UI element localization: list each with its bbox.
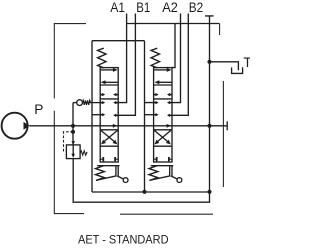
wire T main vertical with plug cap	[205, 16, 214, 192]
spring bottom plate	[151, 165, 174, 167]
wire bottom return line	[92, 191, 210, 193]
spool valve 1	[96, 48, 129, 182]
position A arrows	[101, 69, 115, 71]
wire spool2 T riser	[172, 24, 175, 68]
wire tank bridge spool1	[92, 40, 145, 42]
junction P tap	[71, 124, 75, 128]
position A arrows	[154, 69, 169, 71]
wire spool2 row2 feed	[145, 114, 154, 116]
svg-text:B1: B1	[136, 0, 150, 15]
position C crossed arrows	[154, 130, 171, 142]
wire A2 line	[172, 14, 181, 103]
junction pilot tap	[71, 130, 75, 134]
wire bridge left drop	[91, 41, 93, 192]
junction return mid	[142, 190, 146, 194]
check valve ball spool1	[73, 100, 100, 106]
neutral channel	[154, 98, 172, 100]
neutral blocked port arrows	[154, 93, 172, 117]
pump	[2, 113, 30, 139]
junction T tap	[207, 60, 211, 64]
position C crossed arrows	[101, 130, 118, 142]
bottom blocked ports	[154, 158, 172, 160]
bypass arrow	[113, 124, 118, 128]
spring top	[151, 48, 159, 68]
valve body box	[100, 68, 118, 162]
valve body box	[154, 68, 172, 162]
junction return right	[207, 190, 211, 194]
wire B1 line	[118, 14, 135, 116]
svg-text:B2: B2	[189, 0, 203, 15]
relief valve RV	[64, 132, 88, 159]
wire relief return	[73, 159, 209, 203]
svg-text:T: T	[243, 55, 250, 70]
wire relief feed drop	[72, 103, 74, 145]
wire tank feed	[210, 62, 239, 70]
spring bottom	[96, 166, 105, 181]
spool valve 2	[149, 48, 182, 182]
neutral blocked port arrows	[100, 93, 118, 117]
wire spool1 row2 feed	[92, 114, 100, 116]
svg-text:A2: A2	[162, 0, 178, 15]
boundary envelope (chain line)	[54, 24, 223, 215]
wire B2 line	[172, 14, 188, 116]
svg-text:A1: A1	[110, 0, 125, 15]
spring bottom plate	[97, 165, 119, 167]
tank symbol	[232, 67, 243, 73]
wire carry-over stub	[210, 121, 228, 130]
spring top	[98, 48, 106, 68]
wire bridge right riser / spool2 feed	[145, 41, 154, 192]
bottom blocked ports	[100, 158, 118, 160]
svg-text:P: P	[34, 102, 43, 117]
wire A1 line	[118, 14, 126, 103]
spring bottom	[149, 166, 158, 181]
lever	[96, 166, 123, 181]
svg-text:AET - STANDARD: AET - STANDARD	[78, 232, 169, 246]
junction bypass end	[207, 124, 211, 128]
lever	[150, 166, 178, 181]
wire tank bus top	[127, 23, 220, 25]
bypass arrow	[167, 124, 172, 128]
neutral channel	[100, 98, 118, 100]
wire P line	[29, 125, 209, 127]
